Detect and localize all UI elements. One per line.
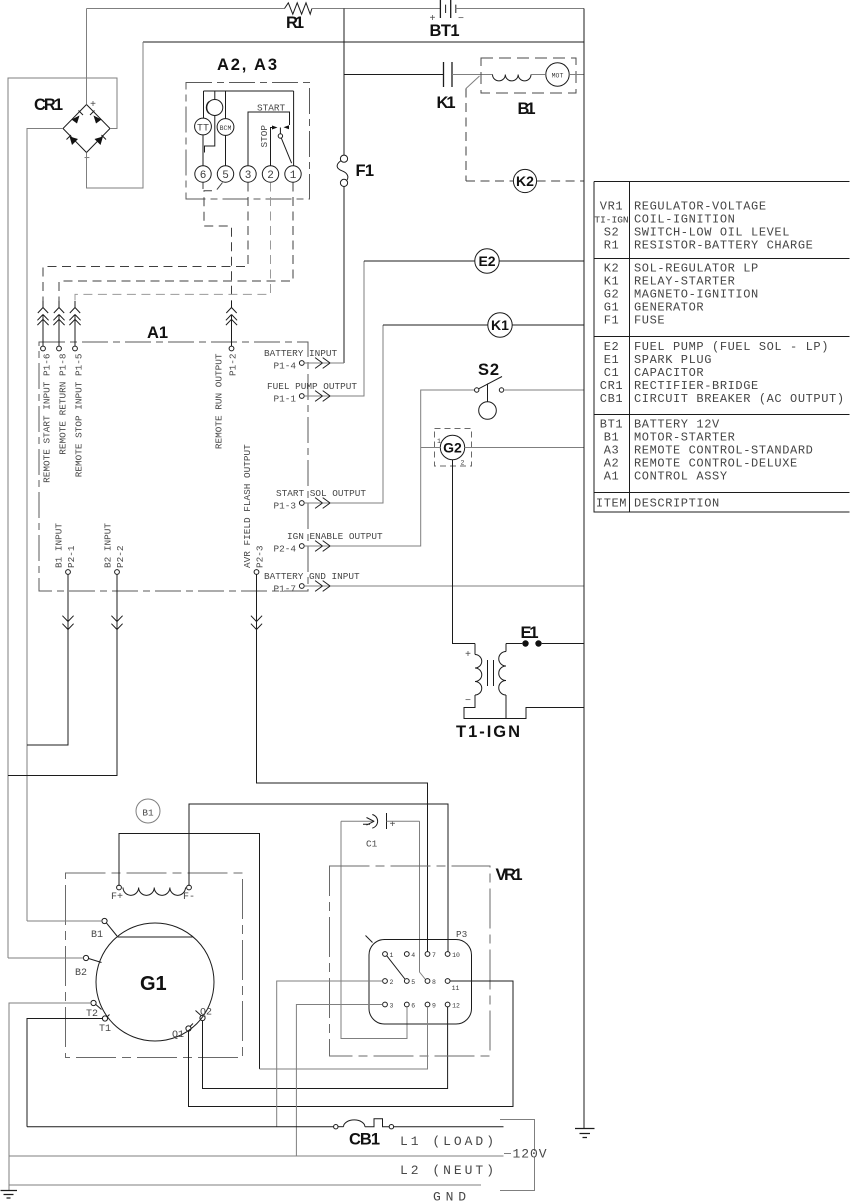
svg-text:E1: E1 (604, 353, 620, 367)
svg-text:TT: TT (197, 124, 209, 135)
svg-text:120V: 120V (513, 1147, 547, 1162)
wire T1 secondary top to E1 to bus (506, 643, 584, 645)
pin circle P1-2 (229, 346, 234, 351)
svg-text:MOT: MOT (552, 73, 564, 80)
F1 top circle (340, 155, 347, 162)
svg-text:ITEM: ITEM (596, 497, 627, 511)
svg-text:DESCRIPTION: DESCRIPTION (634, 497, 720, 511)
svg-text:P1-2: P1-2 (228, 354, 239, 377)
wire F1 to battery input (343, 187, 345, 364)
svg-text:G1: G1 (604, 301, 620, 315)
svg-text:REMOTE START INPUT P1-6: REMOTE START INPUT P1-6 (42, 353, 53, 483)
svg-text:P2-1: P2-1 (66, 545, 77, 568)
pin circle P1-1 (299, 394, 304, 399)
svg-text:STOP: STOP (259, 125, 270, 148)
svg-text:REGULATOR-VOLTAGE: REGULATOR-VOLTAGE (634, 200, 767, 214)
svg-text:B1: B1 (91, 930, 103, 941)
svg-text:8: 8 (432, 979, 436, 986)
P3 pin 8 (425, 979, 430, 984)
svg-text:B1: B1 (142, 808, 154, 819)
120V bracket (500, 1120, 535, 1191)
pin circle P1-4 (299, 361, 304, 366)
generator G1 circle (96, 923, 214, 1041)
svg-text:START SOL OUTPUT: START SOL OUTPUT (276, 488, 366, 499)
pin circle P1-7 (299, 584, 304, 589)
pin circle x=43 (41, 346, 46, 351)
connector P1-7 (315, 581, 330, 592)
svg-text:P2-2: P2-2 (115, 545, 126, 568)
svg-text:FUEL PUMP (FUEL SOL - LP): FUEL PUMP (FUEL SOL - LP) (634, 340, 829, 354)
svg-text:B1 INPUT: B1 INPUT (54, 523, 65, 568)
svg-text:−: − (465, 696, 471, 707)
motor MOT circle (546, 63, 569, 86)
svg-text:3: 3 (390, 1002, 394, 1009)
wire connector to pin x=75 (74, 315, 76, 347)
svg-text:F+: F+ (111, 892, 123, 903)
svg-text:BT1: BT1 (600, 418, 623, 432)
svg-text:BATTERY 12V: BATTERY 12V (634, 418, 720, 432)
input connector at x=43 (37, 301, 48, 325)
input connector at x=75 (69, 301, 80, 325)
G1 field coil (123, 888, 186, 896)
svg-text:REMOTE RETURN P1-8: REMOTE RETURN P1-8 (58, 353, 69, 455)
svg-text:Q1: Q1 (172, 1030, 184, 1041)
svg-text:5: 5 (222, 170, 229, 182)
G1 terminal B2 (83, 955, 88, 960)
resistor R1 (285, 3, 312, 14)
svg-text:+: + (465, 650, 471, 661)
svg-text:9: 9 (432, 1002, 436, 1009)
svg-text:6: 6 (411, 1002, 415, 1009)
A2 terminal 3 (240, 166, 256, 182)
svg-text:P1-7: P1-7 (273, 584, 296, 595)
svg-text:K2: K2 (516, 173, 534, 189)
P3 pin 9 (425, 1002, 430, 1007)
svg-text:FUSE: FUSE (634, 314, 665, 328)
regulator VR1 dashed box (330, 866, 491, 1056)
wire P2-4 ign enable riser to S2 (304, 390, 474, 546)
P3 pin 6 (404, 1002, 409, 1007)
wire P2-1 down (67, 574, 69, 637)
svg-text:P1-4: P1-4 (273, 361, 296, 372)
svg-text:GND: GND (433, 1190, 466, 1202)
wire B1 coil to MOT (531, 74, 546, 76)
svg-text:CB1: CB1 (349, 1131, 380, 1149)
connector P2-3 (251, 616, 262, 630)
P3 pin 12 (445, 1002, 450, 1007)
control assy A1 dash-dot box (39, 342, 308, 591)
svg-text:VR1: VR1 (600, 200, 623, 214)
svg-text:MOTOR-STARTER: MOTOR-STARTER (634, 431, 735, 445)
wire top rail CR1+ to R1 (87, 8, 285, 10)
svg-text:CAPACITOR: CAPACITOR (634, 366, 704, 380)
wire P1-4 battery input to F1 (304, 362, 344, 364)
parts table border (594, 182, 850, 513)
wire K1 coil rail (383, 324, 584, 326)
wire K1 to B1 coil (452, 74, 493, 76)
wire gen Q1 to P3 pin11 (189, 981, 514, 1107)
magneto G2 dashed box (435, 429, 472, 467)
svg-text:4: 4 (411, 952, 415, 959)
wire C1 right to P3 pin8 (420, 821, 426, 979)
relay K1 circle (488, 313, 512, 337)
svg-text:F1: F1 (604, 314, 620, 328)
connector P1-3 (315, 498, 330, 509)
wire CR1 minus rail (143, 41, 584, 43)
wire P3 pin11 stub (450, 980, 513, 982)
svg-text:P3: P3 (456, 929, 468, 940)
dashed wire terminal 2 to P1-5 (75, 183, 271, 302)
svg-text:C1: C1 (604, 366, 620, 380)
svg-text:1: 1 (390, 952, 394, 959)
magneto G2 circle (440, 435, 464, 459)
wire P2-2 to CR1/B2 net (8, 637, 117, 776)
connector P2-1 (62, 616, 73, 630)
svg-text:VR1: VR1 (496, 866, 523, 884)
wire battery+ to K1 contact (344, 74, 444, 76)
svg-text:G2: G2 (443, 440, 462, 456)
G1 terminal Q2 (200, 1015, 205, 1020)
P3 pin 4 (404, 952, 409, 957)
P3 pin 3 (383, 1002, 388, 1007)
wire battery+ drop to F1 (343, 9, 345, 156)
wire P2-1 to CR1/B1 net (27, 637, 68, 745)
G1 terminal T2 (91, 1000, 96, 1005)
P3 lead-in tick (366, 936, 373, 943)
A2 lamp circle (207, 100, 223, 116)
P3 pin 10 (445, 952, 450, 957)
capacitor C1 (341, 820, 375, 822)
svg-text:6: 6 (200, 170, 207, 182)
connector P2-2 (111, 616, 122, 630)
wire L2 neutral rail (9, 1155, 504, 1157)
wire BT1 to right bus (456, 8, 584, 10)
CR1 diodes (72, 116, 80, 124)
svg-text:FUEL PUMP OUTPUT: FUEL PUMP OUTPUT (267, 381, 357, 392)
svg-text:−: − (84, 154, 90, 165)
wire gen B2 to CR1 net (8, 957, 84, 959)
pin circle P2-4 (299, 544, 304, 549)
wire CR1 bottom to x143 riser (87, 42, 144, 188)
P3 jumper pin1 to pin5 (387, 956, 405, 979)
switch pivot (278, 134, 282, 138)
svg-text:7: 7 (432, 952, 436, 959)
wire gen Q2 to P3 pin12 (203, 1007, 448, 1089)
G1 terminal Q1 (186, 1026, 191, 1031)
svg-text:A3: A3 (604, 444, 620, 458)
svg-text:SPARK PLUG: SPARK PLUG (634, 353, 712, 367)
svg-text:CB1: CB1 (600, 392, 623, 406)
pin circle x=75 (73, 346, 78, 351)
svg-text:12: 12 (452, 1002, 460, 1009)
wire P2-3 down (256, 574, 258, 637)
svg-text:BT1: BT1 (430, 22, 460, 40)
wire P3 pin9 to F+ net (260, 1007, 428, 1069)
svg-text:COIL-IGNITION: COIL-IGNITION (634, 213, 735, 227)
svg-text:G2: G2 (604, 288, 620, 302)
svg-text:REMOTE RUN OUTPUT: REMOTE RUN OUTPUT (214, 353, 225, 449)
svg-text:CONTROL ASSY: CONTROL ASSY (634, 470, 728, 484)
svg-text:F1: F1 (356, 162, 375, 180)
P3 pin 11 (445, 979, 450, 984)
fuel pump E2 circle (475, 249, 499, 273)
svg-text:P2-3: P2-3 (255, 545, 266, 568)
A2 TT circle (195, 118, 212, 135)
wire MOT to bus (569, 74, 584, 76)
svg-text:E2: E2 (478, 253, 495, 269)
P3 pin 1 (383, 952, 388, 957)
wire C1 left to P3 pin6 (341, 821, 407, 1038)
svg-text:AVR FIELD FLASH OUTPUT: AVR FIELD FLASH OUTPUT (242, 444, 253, 568)
A2 terminal 2 (262, 166, 278, 182)
connector P1-1 (315, 391, 330, 402)
G1 terminal B1 (102, 918, 107, 923)
CB1 left contact (334, 1125, 338, 1129)
circuit breaker CB1 (27, 1126, 334, 1128)
svg-text:REMOTE STOP INPUT P1-5: REMOTE STOP INPUT P1-5 (74, 353, 85, 477)
ground symbol right (575, 1129, 595, 1138)
svg-text:P1-1: P1-1 (273, 394, 296, 405)
rectifier-bridge CR1 diamond (63, 105, 110, 153)
svg-text:RECTIFIER-BRIDGE: RECTIFIER-BRIDGE (634, 379, 759, 393)
generator G1 dash-dot box (66, 873, 243, 1058)
pin circle P2-2 (115, 570, 120, 575)
P3 pin 2 (383, 979, 388, 984)
wire P2-3 AVR field flash to P3 pin7 (257, 637, 428, 952)
svg-text:B1: B1 (518, 100, 536, 118)
wire K2 to bus dashed (537, 180, 584, 182)
S2 left contact (475, 388, 479, 392)
wire S2 right contact to bus (504, 389, 584, 391)
svg-text:K1: K1 (604, 275, 620, 289)
svg-text:+: + (90, 100, 96, 111)
svg-text:5: 5 (411, 979, 415, 986)
dashed wire terminal 1 to P1-8 (59, 183, 293, 302)
svg-text:REMOTE CONTROL-STANDARD: REMOTE CONTROL-STANDARD (634, 444, 813, 458)
A2 lamp inner arc (206, 102, 209, 114)
wire G2 pin1 to S2 net (421, 447, 441, 449)
svg-text:T1-IGN: T1-IGN (456, 723, 520, 741)
ground symbol left (1, 1191, 18, 1199)
svg-text:A1: A1 (147, 324, 168, 342)
svg-text:K2: K2 (604, 262, 620, 276)
F1 bottom circle (340, 179, 347, 186)
relay contact K1 (444, 62, 453, 87)
motor-starter B1 coil (493, 75, 532, 81)
A2 BCM circle (217, 119, 234, 136)
svg-text:A2: A2 (604, 457, 620, 471)
svg-text:2: 2 (267, 170, 274, 182)
input connector at x=59 (53, 301, 64, 325)
wire P2-2 down (116, 574, 118, 637)
pin circle P2-1 (66, 570, 71, 575)
wire E2 rail (364, 260, 584, 262)
svg-text:E1: E1 (521, 624, 539, 642)
dashed wire terminal 6 stub (202, 183, 204, 190)
spark plug E1 gap dots (522, 640, 528, 646)
svg-text:1: 1 (290, 170, 297, 182)
svg-text:P2-4: P2-4 (273, 544, 296, 555)
wire P1-3 start sol output riser (304, 325, 383, 503)
A2 start/stop switch (248, 112, 290, 166)
svg-text:IGN ENABLE OUTPUT: IGN ENABLE OUTPUT (287, 531, 383, 542)
F- terminal (187, 885, 192, 890)
svg-text:11: 11 (452, 985, 460, 992)
P3 pin 7 (425, 952, 430, 957)
svg-text:RELAY-STARTER: RELAY-STARTER (634, 275, 735, 289)
svg-text:BATTERY GND INPUT: BATTERY GND INPUT (264, 571, 360, 582)
svg-text:K1: K1 (437, 94, 456, 112)
svg-text:MAGNETO-IGNITION: MAGNETO-IGNITION (634, 288, 759, 302)
pin circle x=59 (57, 346, 62, 351)
svg-text:B2 INPUT: B2 INPUT (103, 523, 114, 568)
pin circle P2-3 (254, 570, 259, 575)
T1 secondary winding (499, 652, 506, 696)
output connector P1-2 (226, 301, 237, 325)
svg-text:BCM: BCM (220, 125, 232, 132)
right bus vertical (583, 9, 585, 1129)
svg-text:R1: R1 (286, 14, 304, 32)
wire P3 pin2 to L1 rail (277, 981, 383, 1127)
G1 terminal T1 (102, 1016, 107, 1021)
wire gen T2 to ground (9, 1003, 91, 1190)
remote control A2/A3 dash-dot box (186, 83, 310, 200)
A2 terminal 6 (195, 166, 211, 182)
T1 primary winding (475, 655, 482, 696)
battery BT1 (440, 0, 450, 18)
wire G2 pin2 down to T1-IGN (453, 460, 476, 644)
svg-text:A1: A1 (604, 470, 620, 484)
svg-text:2: 2 (390, 979, 394, 986)
svg-text:1: 1 (437, 438, 441, 445)
wire R1 to BT1 (312, 8, 441, 10)
pin circle P1-3 (299, 501, 304, 506)
svg-text:L1 (LOAD): L1 (LOAD) (400, 1134, 494, 1149)
wire connector to pin P1-2 (231, 315, 233, 347)
field winding leads (119, 834, 260, 1070)
svg-text:SWITCH-LOW OIL LEVEL: SWITCH-LOW OIL LEVEL (634, 226, 790, 240)
wire connector to pin x=59 (58, 315, 60, 347)
svg-text:CR1: CR1 (34, 96, 63, 114)
connector P2-4 (315, 541, 330, 552)
wire P3 pin3 to L2 rail (296, 1005, 382, 1157)
G1 stator chord (118, 936, 193, 938)
svg-text:K1: K1 (491, 317, 509, 333)
S2 bulb (479, 402, 497, 420)
wire CR1 left corner down (to gen B1) (27, 129, 63, 922)
CB1 right contact (389, 1125, 393, 1129)
svg-text:F-: F- (183, 892, 195, 903)
wire gen B1 to CR1 net (27, 920, 102, 922)
A2/A3 internal bus (204, 91, 294, 166)
S2 right contact (499, 388, 503, 392)
wire P1-1 fuel pump output riser (304, 261, 364, 396)
svg-text:TI-IGN: TI-IGN (594, 215, 628, 226)
svg-text:R1: R1 (604, 239, 620, 253)
wire P1-7 battery gnd to bus (304, 585, 584, 587)
wire K2 dashed tap from B1 coil (466, 76, 480, 89)
wire CR1 right corner to top box (8, 78, 117, 958)
svg-text:S2: S2 (478, 361, 499, 379)
A2 terminal 1 (285, 166, 301, 182)
connector P1-4 (315, 358, 330, 369)
motor-starter B1 dashed box (481, 58, 576, 93)
P3 pin 5 (404, 979, 409, 984)
dashed wire terminal 5 to P1-2 (204, 183, 232, 302)
svg-text:RESISTOR-BATTERY CHARGE: RESISTOR-BATTERY CHARGE (634, 239, 813, 253)
svg-text:CR1: CR1 (600, 379, 623, 393)
svg-text:REMOTE CONTROL-DELUXE: REMOTE CONTROL-DELUXE (634, 457, 798, 471)
svg-text:L2 (NEUT): L2 (NEUT) (400, 1163, 494, 1178)
balloon B1 label circle (136, 799, 160, 823)
svg-text:10: 10 (452, 952, 460, 959)
svg-text:2: 2 (461, 460, 465, 467)
svg-text:E2: E2 (604, 340, 620, 354)
svg-text:SOL-REGULATOR LP: SOL-REGULATOR LP (634, 262, 759, 276)
wire G2 right to bus (465, 447, 584, 449)
svg-text:GENERATOR: GENERATOR (634, 301, 704, 315)
wire gen T1 to L1 rail (27, 1019, 103, 1127)
svg-text:CIRCUIT BREAKER (AC OUTPUT): CIRCUIT BREAKER (AC OUTPUT) (634, 392, 845, 406)
svg-text:B2: B2 (75, 968, 87, 979)
A2 terminal 5 (217, 166, 233, 182)
dashed wire terminal 3 to P1-6 (43, 183, 248, 302)
svg-text:C1: C1 (366, 839, 378, 850)
svg-text:G1: G1 (140, 973, 167, 995)
wire connector to pin x=43 (42, 315, 44, 347)
svg-text:S2: S2 (604, 226, 620, 240)
svg-text:BATTERY INPUT: BATTERY INPUT (264, 348, 338, 359)
svg-text:3: 3 (245, 170, 252, 182)
A2 internal wires (203, 116, 226, 166)
svg-text:Q2: Q2 (200, 1008, 212, 1019)
svg-text:T1: T1 (99, 1024, 111, 1035)
wire GND rail (9, 1184, 481, 1186)
F+ terminal (117, 885, 122, 890)
sol-regulator K2 circle (513, 169, 536, 192)
connector P3 outline (369, 940, 472, 1025)
svg-text:P1-3: P1-3 (273, 501, 296, 512)
coil-ignition T1-IGN (474, 644, 476, 655)
svg-text:B1: B1 (604, 431, 620, 445)
wire CR1 top to rail (86, 9, 88, 105)
